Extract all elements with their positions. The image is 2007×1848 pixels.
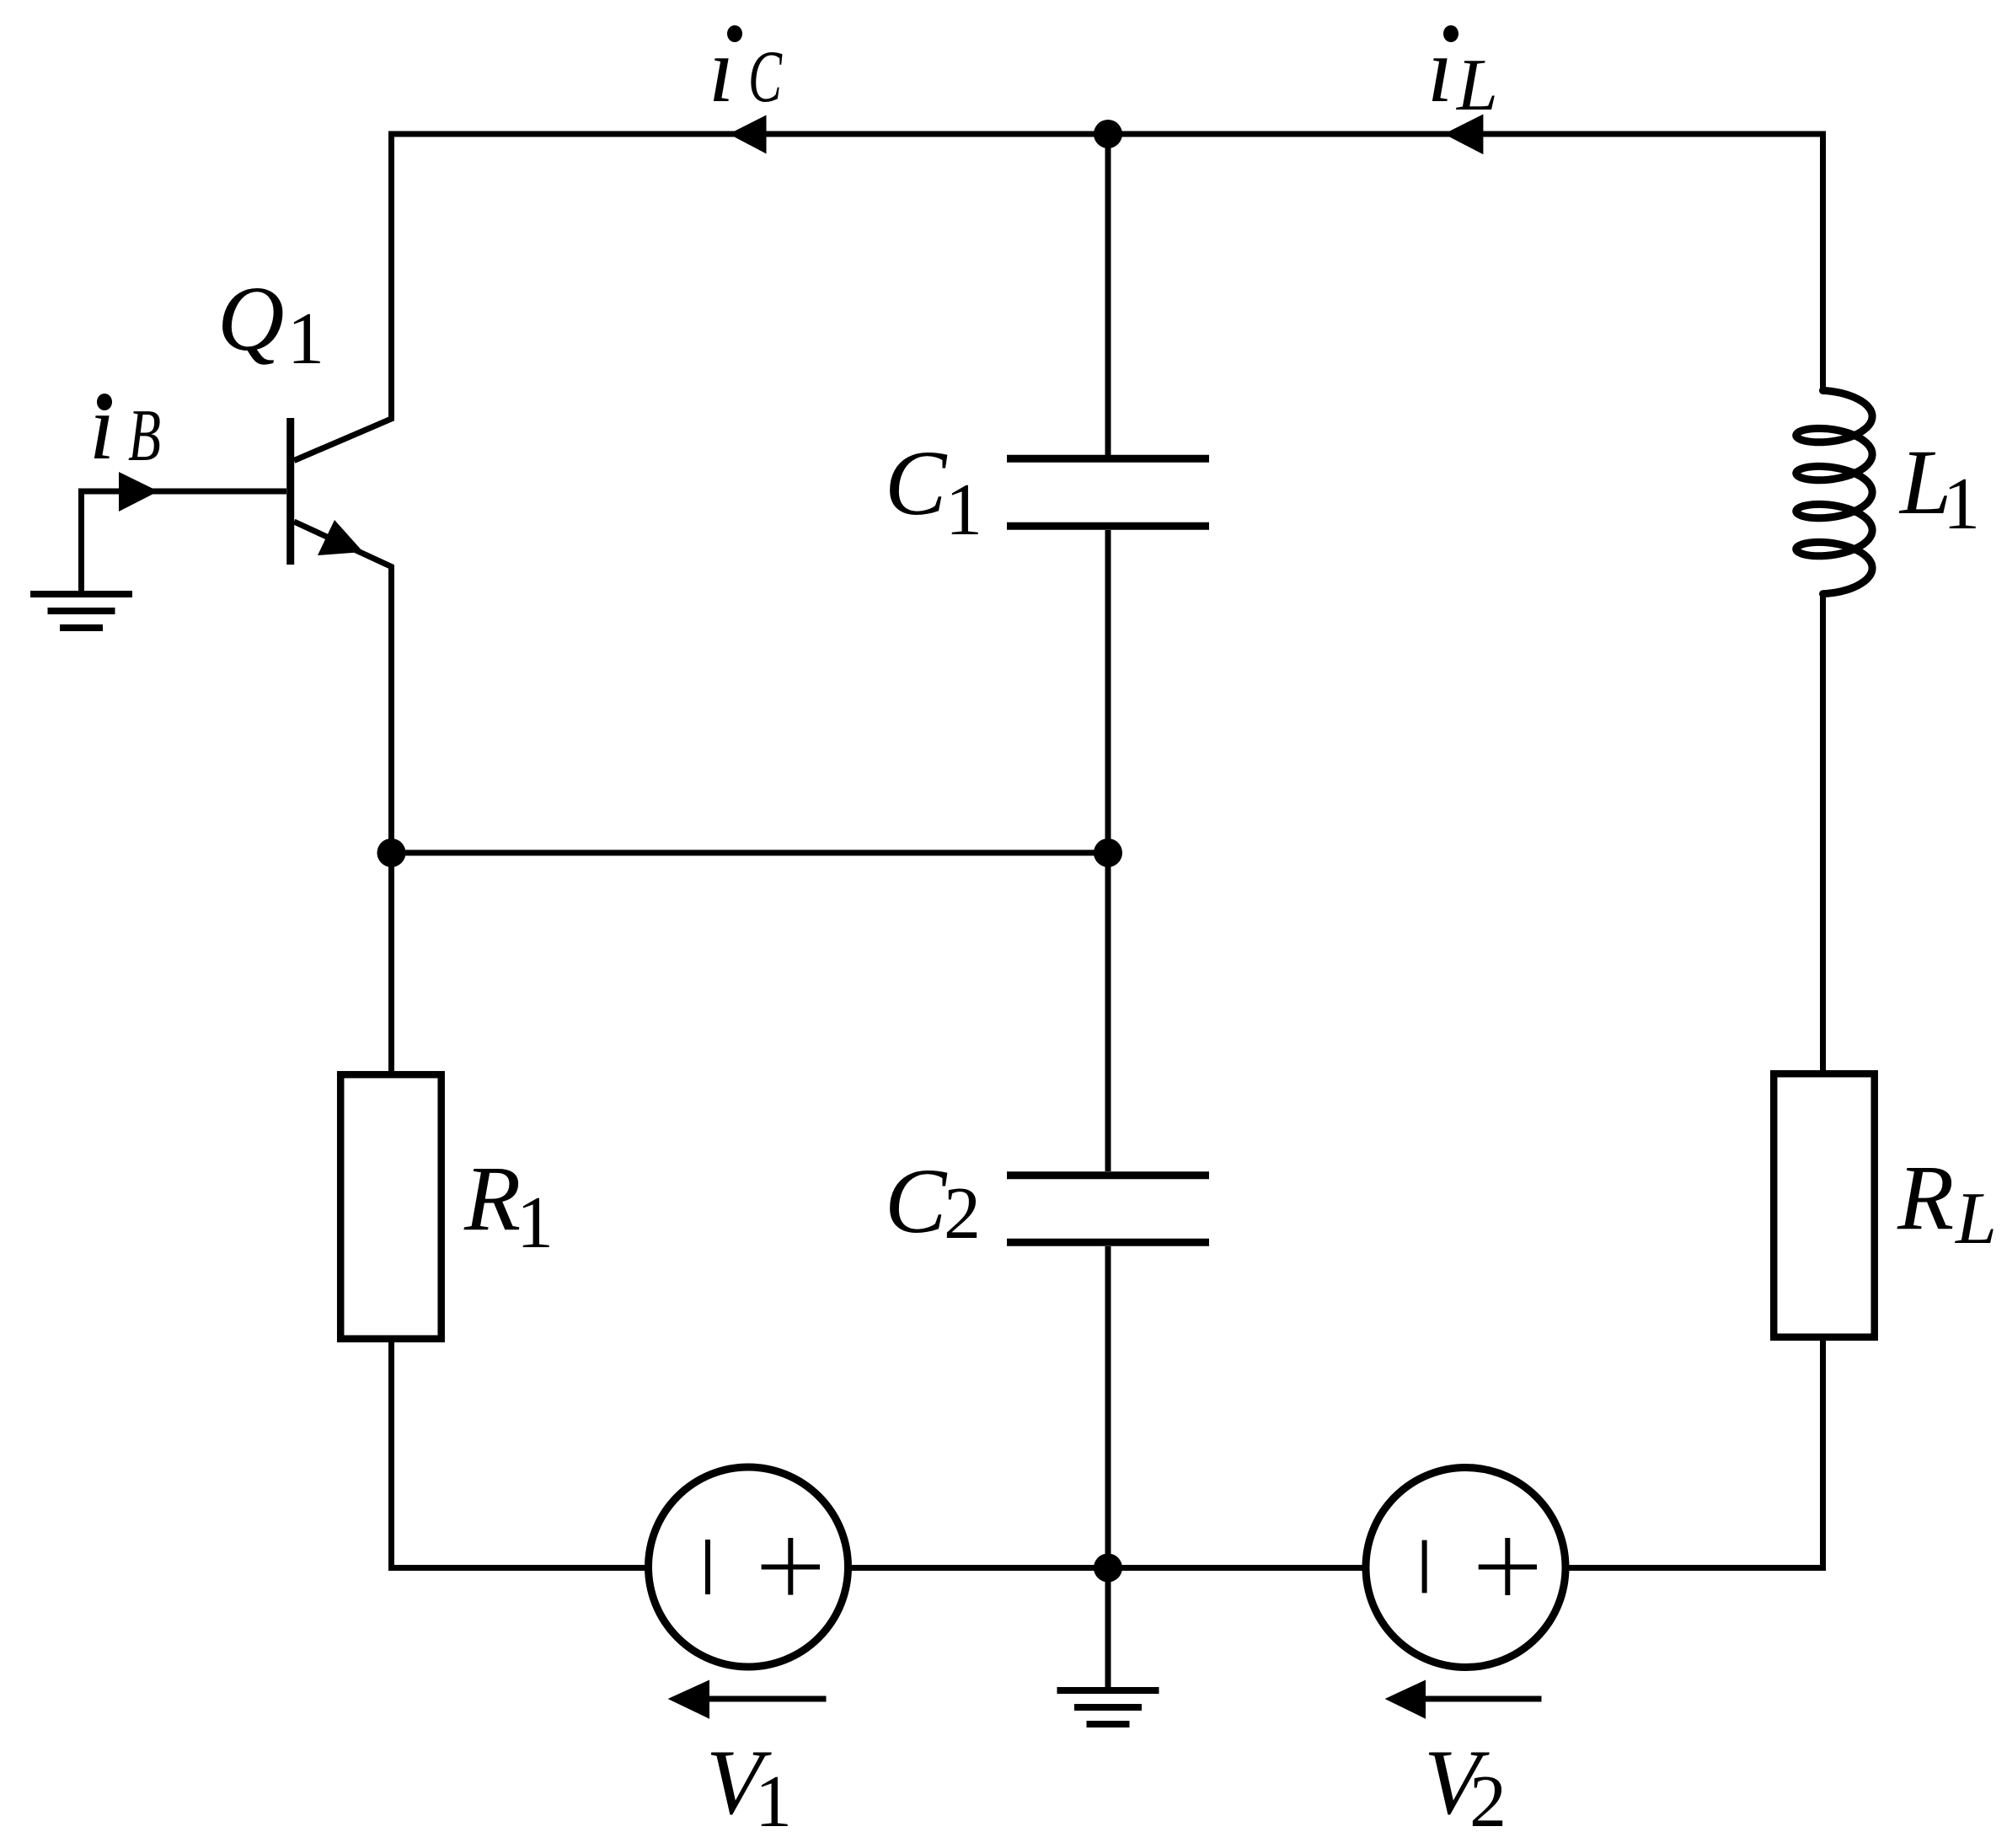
svg-text:ı: ı: [1427, 19, 1453, 121]
svg-text:B: B: [128, 395, 161, 477]
svg-text:L: L: [1455, 45, 1498, 126]
svg-text:1: 1: [945, 469, 982, 551]
svg-text:R: R: [1897, 1146, 1954, 1249]
svg-text:1: 1: [1943, 463, 1980, 545]
svg-text:C: C: [885, 1149, 948, 1252]
svg-text:Q: Q: [217, 267, 284, 370]
svg-text:L: L: [1954, 1178, 1997, 1260]
svg-text:1: 1: [516, 1182, 554, 1264]
svg-text:C: C: [748, 36, 783, 118]
svg-text:C: C: [885, 431, 948, 534]
svg-text:2: 2: [944, 1173, 981, 1255]
svg-text:R: R: [463, 1147, 521, 1250]
svg-text:ı: ı: [709, 19, 735, 121]
svg-text:2: 2: [1469, 1761, 1507, 1843]
svg-text:1: 1: [755, 1761, 792, 1843]
svg-text:ı: ı: [89, 376, 115, 479]
svg-text:1: 1: [287, 298, 324, 380]
